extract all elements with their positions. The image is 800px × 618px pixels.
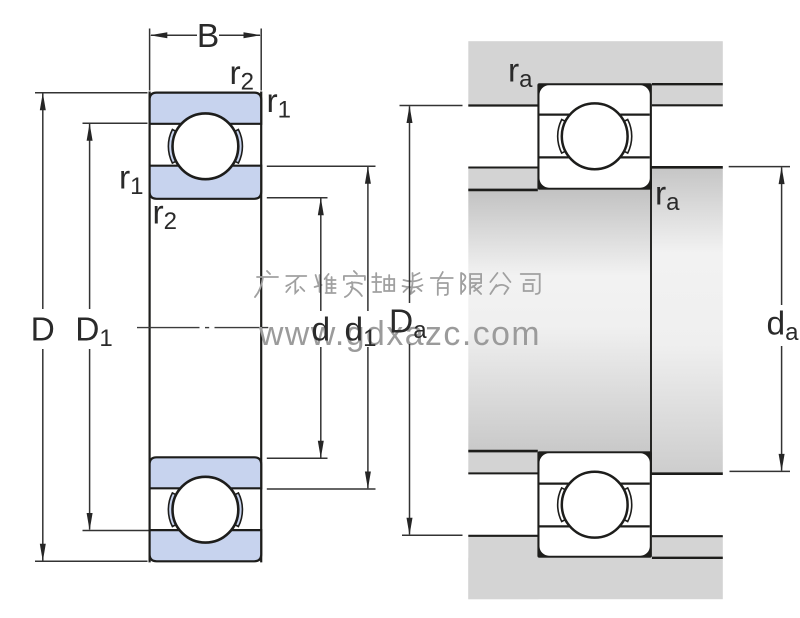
dim D1 ext bottom xyxy=(83,530,149,532)
left outer ring lower section xyxy=(150,530,262,561)
housing lower body xyxy=(468,558,723,599)
dim d1 arrow top xyxy=(365,166,371,184)
cage lower left xyxy=(168,493,177,527)
svg-text:da: da xyxy=(767,306,800,347)
housing upper body xyxy=(468,41,723,84)
housing upper shoulder xyxy=(468,84,538,106)
svg-text:D: D xyxy=(31,312,55,349)
ball upper xyxy=(173,113,239,179)
dim D1 ext top xyxy=(83,122,148,124)
shaft seat line left upper xyxy=(468,189,538,192)
cage upper left xyxy=(168,130,177,164)
dim d1 line upper xyxy=(367,167,369,311)
svg-text:r1: r1 xyxy=(119,160,144,201)
dim B arrow left xyxy=(150,32,168,38)
dim da ext top xyxy=(729,166,790,168)
abutment sleeve lower xyxy=(468,451,538,473)
dim D1 line upper xyxy=(89,124,91,309)
dim d1 line lower xyxy=(367,347,369,488)
dim D line lower xyxy=(42,349,44,561)
dim Da arrow bottom xyxy=(407,518,413,536)
dim da line lower xyxy=(781,346,783,471)
dim d line lower xyxy=(320,347,322,458)
housing cover band upper lower line xyxy=(652,104,723,106)
dim d arrow bottom xyxy=(318,441,324,459)
svg-text:B: B xyxy=(197,18,219,55)
svg-text:r1: r1 xyxy=(267,83,292,124)
ball lower xyxy=(173,477,239,543)
sleeve lower bottom line xyxy=(468,472,538,474)
dim B line left part xyxy=(151,34,197,36)
sleeve upper top line xyxy=(468,167,538,169)
dim B extension left xyxy=(149,29,151,91)
dim B extension right xyxy=(260,29,262,91)
dim Da line upper xyxy=(409,106,411,303)
housing cover band upper xyxy=(652,84,723,105)
dim da line upper xyxy=(781,167,783,305)
dim D line upper xyxy=(42,94,44,310)
left bearing axis centerline xyxy=(137,327,268,329)
left inner ring lower section xyxy=(150,457,262,488)
dim Da ext bottom xyxy=(402,534,463,536)
dim d line upper xyxy=(320,199,322,312)
shaft shoulder surface lower xyxy=(651,472,723,475)
shaft shoulder block xyxy=(651,167,723,473)
abutment sleeve upper xyxy=(468,168,538,190)
dim D ext bottom xyxy=(35,560,148,562)
housing cover band lower xyxy=(652,536,723,558)
dim D1 arrow top xyxy=(87,123,93,141)
dim da arrow bottom xyxy=(779,454,785,472)
watermark chinese company name xyxy=(255,271,278,297)
dim D arrow top xyxy=(40,93,46,111)
housing lower shoulder xyxy=(468,536,538,599)
shaft shoulder step face xyxy=(650,167,652,473)
dim D ext top xyxy=(35,92,148,94)
dim D arrow bottom xyxy=(40,544,46,562)
dim da arrow top xyxy=(779,167,785,185)
shaft shoulder surface upper xyxy=(651,166,723,169)
dim D1 arrow bottom xyxy=(87,513,93,531)
svg-text:d: d xyxy=(311,312,330,349)
svg-text:r2: r2 xyxy=(230,55,255,96)
dim d1 arrow bottom xyxy=(365,472,371,490)
housing lower shoulder line xyxy=(468,535,538,537)
dim d1 ext bottom xyxy=(267,488,376,490)
dim Da arrow top xyxy=(407,106,413,124)
dim da ext bottom xyxy=(730,470,791,472)
left bearing left side face xyxy=(149,92,151,563)
left outer ring upper section xyxy=(150,93,262,124)
dim Da line lower xyxy=(409,344,411,534)
shaft seat line left lower xyxy=(468,450,538,453)
shaft body xyxy=(468,190,651,451)
dim d ext bottom xyxy=(267,457,328,459)
dim Da ext top xyxy=(400,105,463,107)
dim d1 ext top xyxy=(267,165,376,167)
dim D1 line lower xyxy=(89,349,91,530)
svg-text:Da: Da xyxy=(389,304,427,345)
dim B line right part xyxy=(219,34,260,36)
right bearing upper xyxy=(537,83,652,190)
left inner ring upper section xyxy=(150,166,262,199)
housing bore line lower right xyxy=(652,557,723,559)
dim d arrow top xyxy=(318,198,324,216)
housing upper shoulder line xyxy=(468,104,538,106)
svg-text:D1: D1 xyxy=(75,312,113,353)
right bearing lower xyxy=(537,451,652,558)
dim d ext top xyxy=(267,197,328,199)
housing cover band lower top line xyxy=(652,535,723,537)
housing bore line right of bearing xyxy=(652,83,723,85)
cage lower right xyxy=(234,493,243,527)
cage upper right xyxy=(234,130,243,164)
dim B arrow right xyxy=(244,32,262,38)
svg-text:r2: r2 xyxy=(153,195,178,236)
left bearing right side face xyxy=(260,92,262,563)
